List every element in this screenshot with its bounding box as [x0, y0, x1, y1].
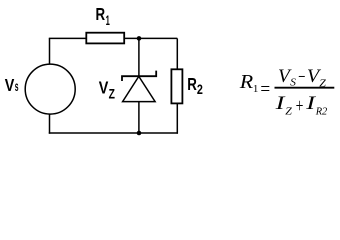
- wire top rail left segment: [49, 37, 87, 39]
- wire right branch lower vertical: [176, 103, 178, 133]
- svg-text:−: −: [298, 66, 305, 88]
- svg-text:=: =: [260, 78, 270, 100]
- svg-text:Z: Z: [285, 106, 293, 118]
- eq fraction bar: [275, 87, 335, 89]
- svg-text:1: 1: [253, 83, 259, 95]
- svg-text:V: V: [99, 78, 109, 98]
- wire bottom rail: [49, 132, 178, 134]
- svg-text:Z: Z: [319, 78, 326, 89]
- zener diode D1 cathode bar with hooks: [122, 71, 156, 81]
- svg-text:R2: R2: [315, 106, 328, 118]
- svg-text:Z: Z: [109, 85, 116, 101]
- svg-text:R: R: [239, 71, 254, 93]
- wire right branch upper vertical: [176, 38, 178, 69]
- junction node top: [137, 36, 142, 41]
- junction node bottom: [137, 131, 142, 136]
- svg-text:S: S: [290, 78, 296, 89]
- resistor R2 body: [171, 69, 182, 103]
- voltage source Vs circle: [25, 64, 75, 114]
- svg-text:R: R: [187, 74, 197, 94]
- svg-text:+: +: [296, 95, 304, 117]
- wire top-left vertical (source top to top rail): [49, 38, 51, 64]
- svg-text:s: s: [15, 78, 19, 94]
- svg-text:R: R: [96, 4, 106, 24]
- wire zener branch lower vertical: [138, 102, 140, 133]
- wire zener branch upper vertical: [138, 38, 140, 76]
- zener diode D1 triangle: [123, 76, 156, 101]
- svg-text:V: V: [5, 75, 15, 95]
- wire top rail right segment: [124, 37, 177, 39]
- svg-text:2: 2: [197, 81, 203, 97]
- svg-text:1: 1: [106, 12, 110, 28]
- wire bottom-left vertical (bottom rail to source bottom): [49, 115, 51, 134]
- resistor R1 body: [86, 33, 124, 44]
